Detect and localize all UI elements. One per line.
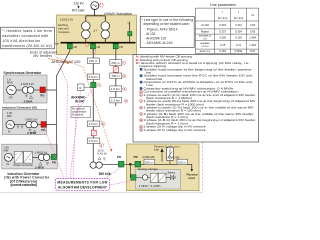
svg-text:110/21 kV: 110/21 kV	[60, 18, 73, 22]
table line parameters	[195, 3, 258, 54]
svg-text:0.69/21 kV: 0.69/21 kV	[25, 117, 38, 121]
svg-text:0.15: 0.15	[220, 43, 226, 47]
svg-text:- Al 132: - Al 132	[145, 32, 156, 36]
breaker CB1	[67, 44, 72, 49]
svg-text:SG: SG	[9, 96, 13, 100]
svg-text:eachother connected with: eachother connected with	[2, 34, 48, 38]
breaker CB2	[91, 44, 96, 49]
legend markers	[140, 68, 143, 132]
ES converter	[150, 173, 158, 182]
svg-text:AXMK 95S: AXMK 95S	[168, 156, 181, 159]
svg-text:(Ω / km): (Ω / km)	[234, 16, 244, 20]
svg-text:250 m: 250 m	[111, 61, 120, 65]
PD1	[117, 155, 124, 167]
recloser red box feeder B	[113, 67, 118, 72]
measurement point below CB2	[92, 50, 96, 54]
energy storage box	[135, 167, 180, 189]
feeder B 150 m	[110, 73, 122, 79]
svg-text:100 m: 100 m	[178, 160, 187, 164]
wire T2 to busbar	[104, 39, 106, 42]
label passive load	[187, 173, 199, 181]
svg-text:load: load	[154, 148, 159, 152]
junction node	[129, 163, 131, 165]
substation box	[57, 15, 137, 55]
feeder B wire	[115, 49, 117, 106]
marker near recloser	[97, 83, 101, 87]
svg-text:IG: IG	[8, 129, 11, 133]
arrow cyclic load	[161, 149, 163, 162]
wire to energy storage	[129, 165, 132, 177]
SG unit	[4, 71, 57, 103]
distribution transformer 500 kVA	[90, 157, 112, 176]
pink measurement wire 6	[44, 127, 64, 178]
marker event A near CB2	[85, 43, 88, 46]
svg-text:0.11: 0.11	[236, 43, 242, 47]
legend box	[133, 55, 259, 143]
svg-text:Battery: Battery	[168, 172, 176, 175]
converter titles	[4, 172, 50, 187]
svg-text:- AHXCMK 120: - AHXCMK 120	[145, 36, 167, 40]
ES battery	[166, 172, 176, 180]
feeder A 100 m	[87, 58, 99, 64]
svg-text:1.5 km: 1.5 km	[89, 139, 99, 143]
segment 200 m	[144, 159, 155, 164]
svg-text:HV/MV Substation: HV/MV Substation	[104, 12, 132, 16]
wire T1 to busbar	[85, 39, 87, 42]
LV wire main	[102, 164, 192, 169]
feeder B 250 m	[110, 60, 122, 65]
svg-text:3-phase 20 % voltage dip in HV: 3-phase 20 % voltage dip in HV network	[144, 128, 207, 132]
label ends of adjacent MV feeders	[30, 51, 57, 59]
feeder A wire	[92, 49, 94, 162]
label earthing trafo	[58, 23, 71, 34]
transformer T2	[101, 22, 110, 39]
marker B4	[124, 99, 128, 103]
svg-text:0.256: 0.256	[219, 35, 226, 39]
arrow 110kV	[78, 5, 80, 8]
feeder A 4.9 km	[87, 74, 99, 80]
marker event 11 HV dip	[100, 3, 103, 7]
orange arrow 1	[48, 59, 70, 64]
svg-text:- AHXAMK-W-240: - AHXAMK-W-240	[145, 41, 173, 45]
svg-text:MV feeders: MV feeders	[34, 54, 53, 58]
svg-text:110 kV: 110 kV	[74, 1, 85, 5]
svg-text:2 MVA: 2 MVA	[27, 131, 37, 135]
svg-text:0.95: 0.95	[250, 30, 256, 34]
svg-text:Δ Y: Δ Y	[94, 29, 98, 33]
marker 8 end of feeder	[99, 143, 103, 147]
svg-text:trafo and: trafo and	[58, 26, 69, 30]
svg-text:1.5 km: 1.5 km	[111, 99, 121, 103]
breaker CB3	[113, 44, 118, 49]
svg-text:MVA: MVA	[7, 81, 13, 85]
svg-text:150 m: 150 m	[111, 74, 120, 78]
recloser R box	[78, 84, 91, 91]
svg-text:200 m: 200 m	[145, 160, 154, 164]
note box resistive loads	[1, 27, 55, 49]
svg-text:MEASUREMENTS FOR LOM: MEASUREMENTS FOR LOM	[57, 180, 107, 184]
svg-text:*: resistive loads 1 km from: *: resistive loads 1 km from	[2, 29, 52, 33]
svg-text:MW: MW	[7, 114, 12, 118]
DG collector wire	[57, 49, 70, 158]
feeder A 3.5 km	[87, 121, 100, 127]
svg-text:2 MVA: 2 MVA	[35, 166, 45, 170]
svg-text:W-240: W-240	[75, 100, 85, 104]
svg-text:IG: IG	[6, 162, 9, 166]
feeder B 1.5 km a	[110, 86, 122, 92]
pink measurement wire 2	[70, 91, 81, 179]
recloser breaker	[91, 82, 96, 87]
marker B1	[122, 61, 126, 65]
svg-text:MW: MW	[4, 149, 9, 153]
arrow passive load right	[191, 169, 194, 172]
PD2	[134, 155, 141, 167]
svg-text:3.5 km: 3.5 km	[89, 122, 99, 126]
svg-text:AXMK 185: AXMK 185	[143, 156, 156, 159]
svg-text:0.344: 0.344	[235, 23, 242, 27]
IG with power converter unit	[2, 144, 57, 169]
svg-text:AXMK 95S: AXMK 95S	[200, 50, 211, 53]
pink measurement wire 3	[73, 88, 94, 178]
svg-text:0.0811: 0.0811	[234, 49, 243, 53]
svg-text:CB: CB	[73, 45, 77, 49]
svg-text:1 MW / 1 kWh: 1 MW / 1 kWh	[139, 184, 162, 188]
svg-text:10: 10	[140, 120, 142, 122]
pink measurement wire 5	[110, 180, 133, 185]
svg-text:(Ω / km): (Ω / km)	[218, 16, 228, 20]
svg-text:1.5 km: 1.5 km	[111, 87, 121, 91]
IG unit	[2, 105, 57, 135]
svg-text:1.984: 1.984	[249, 35, 256, 39]
svg-text:transformers (20.5/0.41 kV): transformers (20.5/0.41 kV)	[2, 44, 52, 48]
svg-text:load: load	[189, 176, 195, 180]
svg-text:1.364: 1.364	[249, 43, 256, 47]
segment 100 m	[177, 159, 188, 164]
marker B3	[123, 87, 127, 91]
svg-text:Energy storage: Energy storage	[138, 167, 158, 171]
svg-text:0.354: 0.354	[235, 30, 242, 34]
note box line types	[140, 16, 194, 47]
svg-text:0.337: 0.337	[219, 30, 226, 34]
ES transformer	[142, 175, 147, 180]
ES PD	[131, 175, 136, 181]
svg-text:- Pigeon, Al/Fe 85/14: - Pigeon, Al/Fe 85/14	[145, 28, 178, 32]
svg-text:Line parameters: Line parameters	[210, 3, 236, 7]
svg-text:0.164: 0.164	[219, 49, 226, 53]
svg-text:depending on the studied case:: depending on the studied case:	[144, 22, 190, 26]
svg-text:0.63: 0.63	[250, 23, 256, 27]
svg-text:AHXAMK-W: AHXAMK-W	[199, 35, 212, 38]
svg-text:Earthing: Earthing	[58, 23, 69, 27]
svg-text:-W-240: -W-240	[201, 46, 209, 48]
svg-text:CB: CB	[119, 45, 123, 49]
svg-text:Compens.: Compens.	[58, 30, 71, 34]
svg-text:r: r	[222, 10, 223, 14]
label 20.5/0.41 kV	[98, 148, 108, 155]
svg-text:Induction Generator (IG): Induction Generator (IG)	[2, 105, 37, 109]
controllable load	[167, 147, 174, 164]
svg-text:CB: CB	[96, 45, 100, 49]
LV network box	[127, 144, 200, 191]
svg-text:0.129: 0.129	[235, 35, 242, 39]
svg-text:compensation: compensation	[72, 111, 87, 114]
svg-text:Synchronous Generator: Synchronous Generator	[4, 71, 42, 75]
label passive cyclic load	[154, 145, 180, 152]
svg-text:100 m: 100 m	[89, 59, 98, 63]
svg-text:0.41 kV: 0.41 kV	[98, 152, 108, 156]
orange arrow 2 dashed	[57, 58, 111, 151]
svg-text:100 kVA distribution: 100 kVA distribution	[2, 39, 40, 43]
label AHXAMK-W-240	[71, 96, 86, 104]
svg-text:0.97: 0.97	[250, 49, 256, 53]
page border lines	[0, 192, 202, 194]
wire grid to split	[86, 9, 106, 21]
svg-text:12: 12	[140, 130, 142, 132]
svg-text:ALGORITHM DEVELOPMENT: ALGORITHM DEVELOPMENT	[58, 185, 107, 189]
svg-text:R/X ratio: R/X ratio	[72, 9, 85, 13]
svg-text:Sudden load increase at the be: Sudden load increase at the beginning of…	[144, 67, 253, 71]
transformer T1	[82, 22, 91, 39]
feeder B 1.5 km b	[110, 97, 122, 103]
svg-text:Power Converter: Power Converter	[14, 163, 34, 167]
svg-text:Y: Y	[127, 22, 129, 26]
svg-text:AHXAMK: AHXAMK	[200, 42, 210, 45]
grid source G1	[91, 2, 99, 10]
marker B2	[122, 74, 126, 78]
earthing transformer	[127, 22, 132, 43]
MV busbar	[61, 42, 136, 44]
measurements box	[55, 179, 109, 191]
svg-text:2 MVA: 2 MVA	[24, 99, 34, 103]
feeder A 1.5 km	[87, 138, 100, 144]
marker near 3.5 km	[102, 122, 106, 126]
svg-text:Operation of OLTC at HV/MV sub: Operation of OLTC at HV/MV substation or…	[144, 80, 254, 84]
svg-text:Pigeon: Pigeon	[201, 30, 210, 34]
legend text	[136, 55, 256, 132]
svg-text:6.6/20.5 kV: 6.6/20.5 kV	[21, 82, 34, 86]
svg-text:4.9 km: 4.9 km	[89, 75, 99, 79]
pink measurement wire 4	[105, 167, 121, 178]
note box compensation	[71, 107, 91, 118]
svg-text:Al 132: Al 132	[201, 23, 209, 27]
pink measurement wire 1	[54, 52, 68, 179]
svg-text:0.218: 0.218	[219, 23, 226, 27]
recloser red box feeder A	[91, 130, 96, 136]
svg-text:(current controlled): (current controlled)	[10, 183, 37, 187]
